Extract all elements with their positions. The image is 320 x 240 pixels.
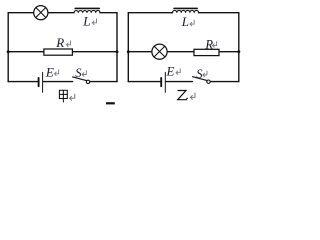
inductor L iron core bar of 甲 (75, 7, 99, 9)
wire: top segment from inductor to top-right corner of 乙 (199, 12, 239, 14)
switch S of 乙: lever arm (193, 77, 207, 81)
paragraph-return mark after R of 乙 (212, 41, 216, 47)
inductor L coil humps of 甲 (74, 10, 100, 12)
wire: bottom segment from bottom-left corner to battery of 甲 (8, 81, 38, 83)
wire: bottom segment from bottom-left corner to battery of 乙 (128, 81, 160, 83)
svg-text:R: R (55, 35, 64, 50)
svg-text:S: S (196, 67, 203, 81)
svg-text:L: L (82, 14, 90, 29)
inductor L iron core bar of 乙 (174, 7, 197, 9)
paragraph-return mark after S of 乙 (203, 71, 207, 77)
caption 乙 under right circuit (178, 91, 188, 100)
svg-text:S: S (75, 66, 82, 80)
wire: middle branch from left junction to lamp of 乙 (128, 51, 152, 53)
svg-text:E: E (45, 64, 54, 79)
resistor R of 乙 (box) (194, 49, 219, 55)
wire: bottom segment between battery and switch of 乙 (166, 81, 193, 83)
wire: middle branch from resistor R to right junction of 甲 (72, 51, 117, 53)
node: junction dot left end of middle branch of 乙 (127, 50, 130, 53)
switch S of 乙: contact circle (207, 80, 210, 83)
paragraph-return mark after caption 甲 (70, 94, 75, 101)
svg-text:L: L (181, 14, 189, 29)
underscore dash mark at bottom center (106, 102, 115, 104)
battery E of 乙: long thin plate (164, 72, 166, 92)
wire: bottom segment between battery and switch of 甲 (43, 81, 72, 83)
wire: right edge of circuit 甲 (116, 13, 118, 82)
svg-text:E: E (166, 63, 175, 78)
caption 甲 under left circuit (59, 90, 67, 102)
switch S of 甲: lever arm (73, 77, 87, 81)
battery E of 乙: short thick plate (160, 78, 162, 86)
lamp (circle with X) in top branch of 甲 (34, 6, 48, 20)
paragraph-return mark after S of 甲 (82, 70, 86, 76)
paragraph-return mark after caption 乙 (190, 93, 195, 100)
node: junction dot right end of middle branch of 甲 (116, 50, 119, 53)
inductor L coil humps of 乙 (173, 10, 199, 12)
node: junction dot right end of middle branch of 乙 (237, 50, 240, 53)
wire: middle branch between lamp and resistor R of 乙 (167, 51, 194, 53)
wire: top segment between lamp and inductor (48, 12, 74, 14)
wire: middle branch from resistor R to right junction of 乙 (219, 51, 239, 53)
paragraph-return mark after E of 乙 (176, 68, 180, 74)
node: junction dot left end of middle branch of 甲 (7, 50, 10, 53)
wire: left edge of circuit 乙 (127, 13, 129, 82)
lamp (circle with X) in middle branch of 乙 (152, 44, 167, 59)
svg-text:R: R (204, 38, 213, 52)
paragraph-return mark after L of 乙 (190, 20, 194, 26)
wire: top segment from inductor to top-right corner (100, 12, 117, 14)
paragraph-return mark after R of 甲 (66, 41, 70, 47)
resistor R of 甲 (box) (44, 49, 73, 55)
paragraph-return mark after L of 甲 (92, 19, 96, 25)
wire: top segment from top-left corner to inductor of 乙 (128, 12, 172, 14)
wire: top segment from top-left corner to lamp (8, 12, 34, 14)
paragraph-return mark after E of 甲 (54, 70, 58, 76)
wire: right edge of circuit 乙 (238, 13, 240, 82)
wire: middle branch from left junction to resistor R of 甲 (8, 51, 44, 53)
battery E of 甲: long thin plate (42, 72, 44, 92)
wire: bottom segment from switch to bottom-right corner of 甲 (90, 81, 117, 83)
wire: left edge of circuit 甲 (7, 13, 9, 82)
switch S of 甲: contact circle (86, 80, 89, 83)
battery E of 甲: short thick plate (38, 78, 40, 86)
wire: bottom segment from switch to bottom-right corner of 乙 (210, 81, 239, 83)
